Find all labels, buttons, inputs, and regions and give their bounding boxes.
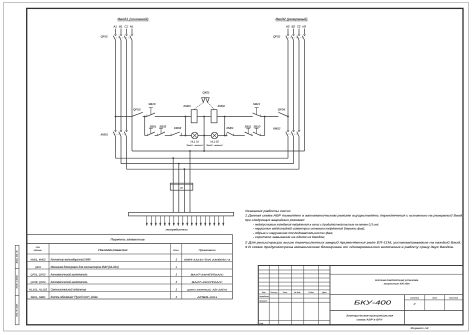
svg-text:Подп. и дата: Подп. и дата — [16, 274, 19, 288]
svg-text:Разработал: Разработал — [259, 295, 269, 298]
node N mid — [203, 116, 205, 118]
metering unit — [170, 183, 193, 190]
svg-text:Указания работы сети:: Указания работы сети: — [245, 209, 291, 213]
svg-text:N1: N1 — [130, 24, 134, 28]
node busbar A — [172, 212, 174, 214]
pushbutton SB01 — [147, 124, 157, 135]
notes — [244, 209, 463, 249]
svg-text:С2: С2 — [297, 24, 301, 28]
svg-text:Взам. инв. №: Взам. инв. № — [16, 250, 19, 264]
node busbar B — [178, 212, 180, 214]
svg-text:"Ввод2 - включен": "Ввод2 - включен" — [206, 144, 223, 147]
link KM02 coil to lamp row — [224, 117, 226, 136]
svg-text:цвет зеленый, AD-22DS: цвет зеленый, AD-22DS — [187, 289, 228, 292]
svg-text:Лист: Лист — [431, 297, 437, 300]
svg-text:Блочная комплектная установка: Блочная комплектная установка — [375, 279, 419, 282]
link KM01 coil to lamp row — [184, 117, 186, 136]
node bus N left drop — [189, 150, 191, 152]
svg-text:А2: А2 — [285, 24, 290, 28]
drop wire A — [172, 158, 174, 183]
svg-text:схема АВР в ВРУ: схема АВР в ВРУ — [357, 319, 384, 322]
svg-text:SB10: SB10 — [253, 124, 260, 128]
svg-text:SB20: SB20 — [148, 102, 155, 106]
svg-text:- короткое замыкание на одном: - короткое замыкание на одном из Вводов; — [253, 235, 325, 239]
node N drop lamp row — [203, 135, 205, 137]
svg-text:Подп.: Подп. — [308, 291, 314, 294]
pushbutton SB20 — [147, 102, 156, 117]
svg-text:SB01: SB01 — [150, 124, 157, 128]
svg-text:БКУ-400: БКУ-400 — [354, 299, 392, 306]
svg-text:мощностью 400 кВт: мощностью 400 кВт — [384, 283, 410, 286]
label input 2 — [276, 17, 308, 21]
aux contact KM02 — [171, 126, 181, 136]
wire lamp2 to link — [218, 135, 228, 137]
svg-text:Перечень элементов: Перечень элементов — [111, 237, 145, 241]
svg-text:КМ01: КМ01 — [101, 133, 109, 137]
node K2 — [264, 116, 266, 118]
wire lamp row 7 — [260, 135, 265, 137]
wire B to busbar — [178, 183, 180, 212]
svg-text:QF02: QF02 — [273, 34, 281, 38]
consumer feeders — [146, 216, 224, 231]
node K1 — [144, 116, 146, 118]
svg-text:КМ02: КМ02 — [174, 126, 182, 130]
wire lamp row 2 — [155, 135, 158, 137]
svg-text:QF03: QF03 — [133, 107, 141, 111]
svg-text:обознач.: обознач. — [34, 249, 43, 252]
svg-text:КМ01: КМ01 — [184, 104, 192, 108]
wire lamp1 to N drop — [198, 135, 212, 137]
wire C1 — [126, 40, 128, 130]
node busbar N — [189, 212, 191, 214]
wire C2 below contact — [298, 137, 300, 169]
svg-text:Инв. № подл.: Инв. № подл. — [16, 303, 19, 316]
svg-text:Кол.: Кол. — [173, 249, 180, 252]
phase labels A1 B1 C1 N1 — [112, 24, 133, 28]
pushbutton SB10 — [253, 124, 261, 135]
svg-text:Ввод1 (основной): Ввод1 (основной) — [118, 17, 149, 21]
svg-text:Поз.: Поз. — [36, 246, 41, 249]
svg-text:В2: В2 — [291, 24, 295, 28]
svg-text:КМ01: КМ01 — [226, 126, 234, 130]
bus B — [121, 163, 294, 165]
svg-text:АПБВ-22Н: АПБВ-22Н — [195, 296, 217, 299]
svg-text:А1: А1 — [112, 24, 117, 28]
svg-text:Автоматический выключатель: Автоматический выключатель — [50, 280, 88, 284]
svg-text:SB21: SB21 — [253, 102, 260, 106]
wire drop K1 — [144, 117, 146, 136]
lamp HL1 02 — [206, 132, 223, 147]
label input 1 — [118, 17, 149, 21]
wire QF03 to SB20 — [143, 116, 147, 118]
svg-text:Кол.уч: Кол.уч — [271, 291, 278, 294]
link N drop — [203, 117, 205, 152]
wire B2 — [293, 40, 295, 130]
svg-text:Формат А3: Формат А3 — [411, 327, 430, 330]
node busbar C — [184, 212, 186, 214]
wire lamp row 5 — [233, 135, 245, 137]
wire N1 — [131, 40, 133, 151]
svg-text:С1: С1 — [124, 24, 128, 28]
svg-text:2 Для регистрации выше перечис: 2 Для регистрации выше перечисленных ава… — [244, 240, 462, 244]
bus C — [127, 168, 300, 170]
svg-text:QF04: QF04 — [278, 107, 286, 111]
contactor KM01 main contacts — [101, 130, 128, 137]
distribution busbar — [129, 212, 234, 216]
svg-text:КМ01, КМ02: КМ01, КМ02 — [31, 259, 47, 262]
drop wire C — [183, 169, 185, 183]
wire SB20 to KM01 coil — [155, 116, 191, 118]
aux contact KM01 — [226, 126, 234, 136]
node A1 tap — [115, 116, 117, 118]
svg-text:при следующих аварийных режима: при следующих аварийных режимах: — [245, 218, 305, 222]
bus A — [116, 157, 289, 159]
pushbutton SB21 — [253, 102, 261, 117]
svg-text:Механизм блокировки для контак: Механизм блокировки для контакторов КМИ … — [51, 265, 119, 269]
wire A to busbar — [172, 183, 174, 212]
svg-text:Контактор малогабаритный КМИ: Контактор малогабаритный КМИ — [51, 258, 91, 262]
margin boxes (inventory column) — [15, 245, 19, 324]
svg-text:HL1 01: HL1 01 — [191, 141, 200, 144]
switch QF04 — [278, 107, 288, 116]
svg-text:HL1 02: HL1 02 — [210, 141, 219, 144]
svg-text:Светосигнальный индикатор: Светосигнальный индикатор — [51, 288, 87, 292]
svg-text:ВА47-29/4П/50А/С: ВА47-29/4П/50А/С — [191, 274, 225, 277]
node KM02 coil right — [224, 116, 226, 118]
svg-text:QК01: QК01 — [35, 266, 42, 269]
svg-text:"Ввод1 - включен": "Ввод1 - включен" — [186, 144, 203, 147]
node A2 tap — [287, 116, 289, 118]
wire C2 — [298, 40, 300, 130]
wire A2 below contact — [287, 137, 289, 158]
pushbutton SB11 — [245, 124, 252, 135]
wire C to busbar — [183, 183, 185, 212]
wire between coils — [197, 116, 211, 118]
svg-text:Ввод2 (резервный): Ввод2 (резервный) — [276, 17, 308, 21]
svg-text:№ док.: № док. — [294, 291, 301, 294]
svg-text:потребители: потребители — [166, 228, 189, 231]
wire B1 — [120, 40, 122, 130]
svg-text:Утв.: Утв. — [259, 322, 264, 325]
pushbutton SB02 — [158, 124, 167, 135]
contactor coil KM01 — [184, 104, 198, 123]
drop wire B — [178, 164, 180, 184]
circuit breaker QF01 — [101, 29, 134, 41]
svg-text:В1: В1 — [119, 24, 123, 28]
circuit breaker QF02 — [273, 29, 306, 41]
wire lamp row 1 — [145, 135, 148, 137]
wire lamp row 3 — [165, 135, 171, 137]
switch QF03 — [132, 107, 143, 116]
svg-text:QF03, QF04: QF03, QF04 — [31, 281, 47, 284]
contactor coil KM02 — [211, 104, 225, 123]
svg-text:Наименование: Наименование — [98, 248, 128, 252]
svg-text:Автоматический выключатель: Автоматический выключатель — [50, 273, 88, 277]
wire control from A1 — [116, 116, 132, 118]
phase labels A2 B2 C2 N2 — [285, 24, 306, 28]
wire B1 below contact — [120, 137, 122, 164]
svg-text:Проверил: Проверил — [259, 299, 267, 302]
svg-text:3 В схеме предусмотрена механи: 3 В схеме предусмотрена механическая бло… — [245, 245, 454, 249]
wire lamp row 4 — [180, 135, 192, 137]
svg-text:QF01: QF01 — [101, 34, 109, 38]
bus N — [132, 150, 305, 152]
svg-text:Электрическая принципиальная: Электрическая принципиальная — [346, 315, 394, 318]
svg-text:Кнопка обжимная "Пуск/Стоп", 2: Кнопка обжимная "Пуск/Стоп", 22мм — [51, 295, 98, 299]
svg-text:Лист: Лист — [282, 291, 288, 294]
svg-text:N2: N2 — [302, 24, 306, 28]
wire drop K2 — [264, 117, 266, 136]
drop wire N — [189, 151, 191, 183]
element list table — [27, 235, 232, 300]
node bus A drop — [172, 157, 174, 159]
svg-text:Р: Р — [414, 302, 416, 306]
wire B2 below contact — [293, 137, 295, 164]
wire N2 — [304, 40, 306, 151]
svg-text:Стадия: Стадия — [410, 297, 419, 300]
wire A1 — [115, 40, 117, 130]
wire C1 below contact — [126, 137, 128, 169]
svg-text:КМ02: КМ02 — [218, 104, 226, 108]
svg-text:SB01, SB21: SB01, SB21 — [31, 296, 47, 299]
title block — [258, 266, 463, 325]
svg-text:SB11: SB11 — [245, 124, 252, 128]
svg-text:SB02: SB02 — [159, 124, 166, 128]
node lamp2 right — [224, 135, 226, 137]
lamp HL1 01 — [186, 132, 203, 147]
node KM01 coil left — [185, 116, 187, 118]
contactor KM02 main contacts — [273, 127, 300, 137]
svg-text:КМ02: КМ02 — [273, 127, 281, 131]
mechanical interlock QK01 — [194, 90, 214, 109]
wire SB21 to QF04 — [261, 116, 279, 118]
wire lamp row 6 — [252, 135, 253, 137]
node bus C drop — [184, 168, 186, 170]
node bus N control — [203, 150, 205, 152]
wire KM02 coil to SB21 — [217, 116, 253, 118]
svg-text:QК01: QК01 — [203, 90, 211, 94]
node lamp1 left — [185, 135, 187, 137]
svg-text:QF01, QF02: QF01, QF02 — [31, 274, 47, 277]
wire A1 below contact — [115, 137, 117, 158]
node bus B drop — [178, 163, 180, 165]
svg-text:Дата: Дата — [321, 291, 326, 294]
svg-text:HL101, HL102: HL101, HL102 — [29, 289, 48, 292]
wire N to busbar — [189, 183, 191, 212]
svg-text:ВА47-29/1П/2А/С: ВА47-29/1П/2А/С — [192, 281, 224, 284]
svg-text:Примечание: Примечание — [199, 249, 217, 252]
svg-text:Листов: Листов — [448, 297, 458, 300]
svg-text:КМИ-11210 50А 230В/АС-3: КМИ-11210 50А 230В/АС-3 — [184, 259, 231, 262]
wire A2 — [287, 40, 289, 130]
